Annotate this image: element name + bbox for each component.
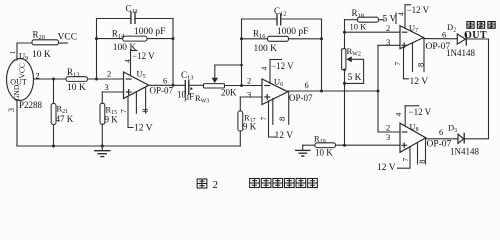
svg-text:8: 8 (140, 108, 150, 112)
resistor R18 (345, 8, 385, 31)
svg-text:R16: R16 (253, 29, 266, 41)
svg-text:3: 3 (386, 132, 390, 142)
svg-text:OP-07: OP-07 (289, 93, 313, 103)
node R14 right junction (172, 37, 175, 40)
svg-text:10 K: 10 K (350, 21, 368, 31)
wire sensor pin1 to R20 (17, 43, 32, 60)
svg-text:C11: C11 (126, 4, 138, 16)
svg-text:P2288: P2288 (19, 100, 43, 110)
svg-text:VCC: VCC (18, 63, 27, 78)
U5 pin 4 stub and -12V port (123, 51, 155, 76)
node R16 left junction (240, 37, 243, 40)
ground rail left (17, 145, 240, 147)
U5 pin 8 stubs (136, 87, 149, 113)
node U5 output junction (172, 84, 175, 87)
svg-text:4: 4 (394, 113, 403, 117)
node R14 left junction (95, 37, 98, 40)
svg-text:R18: R18 (352, 8, 365, 20)
node U5 feedback / input junction (95, 78, 98, 81)
svg-text:RW3: RW3 (195, 93, 209, 105)
potentiometer RW2 5K (342, 46, 364, 83)
svg-text:3: 3 (105, 82, 109, 92)
resistor R17 (238, 97, 257, 146)
U6 pin 7 stub and 12V port (259, 101, 293, 141)
capacitor C11 (126, 4, 166, 38)
svg-text:4: 4 (396, 12, 405, 16)
op-amp U6 OP-07 (262, 77, 313, 105)
wire signal vertical to U7/U8 (377, 45, 379, 132)
svg-text:U8: U8 (410, 122, 419, 134)
svg-text:D2: D2 (447, 22, 456, 34)
U7 pin 8 stubs (413, 38, 426, 71)
svg-text:10 K: 10 K (315, 148, 333, 158)
svg-text:47 K: 47 K (56, 114, 74, 124)
svg-text:2: 2 (107, 69, 111, 79)
svg-text:8: 8 (417, 160, 427, 164)
wire R20 to VCC port (59, 42, 68, 44)
wire sensor pin3 down (16, 100, 18, 147)
svg-text:6: 6 (439, 127, 443, 137)
node U6 input junction (240, 84, 243, 87)
svg-text:D3: D3 (448, 123, 457, 135)
svg-text:8: 8 (416, 63, 426, 67)
svg-text:RW2: RW2 (347, 46, 361, 58)
svg-text:12 V: 12 V (275, 131, 294, 141)
svg-text:1000 pF: 1000 pF (134, 27, 165, 37)
U8 pin 4 stub and -12V port (394, 106, 432, 126)
ground symbol left (94, 146, 111, 157)
svg-text:VCC: VCC (58, 33, 78, 43)
svg-text:10 K: 10 K (67, 83, 86, 93)
svg-text:9 K: 9 K (105, 115, 119, 125)
resistor R21 (51, 79, 74, 146)
capacitor C13 (181, 70, 194, 95)
wire U7 pin2 input (345, 31, 401, 33)
sensor U9 P2288 pyroelectric detector (7, 51, 43, 111)
capacitor C12 (274, 6, 308, 37)
5V power port (383, 13, 397, 25)
svg-text:2: 2 (247, 76, 251, 86)
svg-text:3: 3 (386, 37, 390, 47)
svg-text:7: 7 (401, 158, 410, 162)
svg-text:OP-07: OP-07 (427, 139, 452, 149)
svg-text:20K: 20K (221, 88, 237, 98)
ground symbol right (295, 145, 311, 156)
svg-text:C12: C12 (274, 6, 287, 18)
svg-text:4: 4 (123, 59, 132, 63)
svg-text:R13: R13 (67, 67, 80, 79)
wire U6 feedback left vertical (241, 19, 243, 86)
svg-text:6: 6 (305, 80, 309, 90)
U6 pin 4 stub and -12V port (260, 60, 295, 84)
wire sensor pin2 to R13 (34, 78, 67, 80)
U8 pin 7 stub and 12V port (377, 147, 410, 173)
op-amp U8 OP-07 (400, 122, 452, 153)
svg-text:1: 1 (8, 51, 17, 55)
svg-text:6: 6 (163, 75, 167, 85)
svg-text:12 V: 12 V (377, 163, 396, 173)
wire U6 pin3 input (240, 96, 262, 98)
node R16 right junction (320, 37, 323, 40)
resistor R13 (66, 67, 88, 93)
node R15 ground junction (101, 145, 104, 148)
node RW2 bottom junction (343, 69, 346, 72)
resistor R19 (303, 133, 400, 157)
wire U5 output to C13 (149, 84, 185, 86)
svg-text:8: 8 (277, 117, 287, 121)
svg-text:6: 6 (442, 29, 446, 39)
svg-text:7: 7 (259, 117, 268, 121)
wire threshold node vertical upper (344, 20, 346, 49)
svg-text:R20: R20 (33, 30, 46, 42)
resistor R15 (100, 92, 118, 146)
wire U6 feedback top rail (242, 18, 278, 20)
op-amp U5 OP-07 (124, 69, 174, 99)
wire U5 feedback top rail (97, 18, 131, 20)
svg-text:4: 4 (260, 67, 269, 71)
caption figure 2 (197, 179, 218, 191)
wire U7 pin3 input (378, 44, 400, 46)
label pyroelectric (Chinese) (467, 22, 495, 29)
svg-text:C13: C13 (181, 70, 194, 82)
U7 pin 4 stub and -12V port (396, 5, 429, 28)
node RW2 wiper tie junction (343, 82, 346, 85)
U7 pin 7 stub and 12V port (393, 47, 428, 87)
resistor R20 (32, 30, 59, 61)
wire C13 to RW3 (190, 84, 204, 86)
op-amp U7 OP-07 (400, 23, 451, 53)
svg-text:2: 2 (213, 179, 219, 191)
wire R13 to U5 inverting input (88, 78, 124, 80)
node R21 ground junction (52, 145, 55, 148)
wire D2 to OUT (466, 38, 488, 40)
svg-text:9 K: 9 K (243, 122, 257, 132)
svg-text:OP-07: OP-07 (150, 86, 174, 96)
svg-text:U6: U6 (274, 77, 283, 89)
svg-text:GND: GND (12, 84, 21, 101)
wire RW3 wiper to feedback node (215, 64, 242, 66)
potentiometer RW3 20K (195, 65, 237, 105)
svg-text:−12 V: −12 V (132, 51, 155, 61)
wire U6 output across to comparators (288, 90, 378, 92)
U6 pin 8 stubs (273, 92, 289, 124)
diode D3 1N4148 (448, 123, 479, 157)
svg-text:U7: U7 (409, 23, 418, 35)
node U6 output junction (320, 90, 323, 93)
svg-text:R14: R14 (112, 28, 125, 40)
svg-text:−12 V: −12 V (271, 61, 294, 71)
U8 pin 8 stubs (417, 139, 427, 164)
diode D2 1N4148 (446, 22, 475, 58)
svg-text:−12 V: −12 V (407, 5, 430, 15)
U5 pin 7 stub and 12V port (119, 96, 153, 134)
svg-text:2: 2 (386, 23, 390, 33)
wire U7 output to D2 (424, 38, 458, 40)
wire RW3 to U6 inverting input (225, 85, 263, 87)
svg-text:R19: R19 (314, 133, 326, 145)
svg-text:3: 3 (7, 108, 16, 112)
node sensor out / R21 junction (52, 78, 55, 81)
wire U8 output to D3 (426, 138, 458, 140)
svg-text:1N4148: 1N4148 (450, 147, 479, 157)
svg-text:U5: U5 (137, 69, 146, 81)
svg-text:7: 7 (393, 62, 402, 66)
resistor R16 (242, 29, 322, 55)
svg-text:−12 V: −12 V (409, 107, 432, 117)
svg-text:5 K: 5 K (348, 73, 362, 83)
wire U5 feedback right vertical (172, 19, 174, 86)
svg-text:1000 pF: 1000 pF (277, 27, 308, 37)
svg-text:12 V: 12 V (134, 124, 153, 134)
wire U5 pin3 input (102, 91, 123, 93)
svg-text:U9: U9 (19, 51, 28, 63)
resistor R14 (97, 28, 174, 53)
svg-text:2: 2 (386, 123, 390, 133)
svg-text:100 K: 100 K (254, 44, 278, 54)
wire U8 pin2 input (378, 131, 400, 133)
svg-text:1N4148: 1N4148 (446, 48, 475, 58)
wire threshold node vertical lower (344, 70, 346, 145)
caption object positioning detection (Chinese) (250, 178, 318, 187)
svg-text:OUT: OUT (464, 30, 487, 41)
wire OUT bus right vertical (465, 39, 489, 139)
node R19 threshold junction (343, 144, 346, 147)
svg-text:3: 3 (247, 89, 251, 99)
wire U6 feedback right vertical (321, 19, 323, 91)
wire U5 feedback left vertical (96, 19, 98, 80)
node comparator signal junction (377, 90, 380, 93)
svg-text:12 V: 12 V (410, 77, 429, 87)
node U7 pin2 junction (343, 31, 346, 34)
svg-text:7: 7 (119, 109, 128, 113)
svg-text:10 K: 10 K (32, 50, 51, 60)
